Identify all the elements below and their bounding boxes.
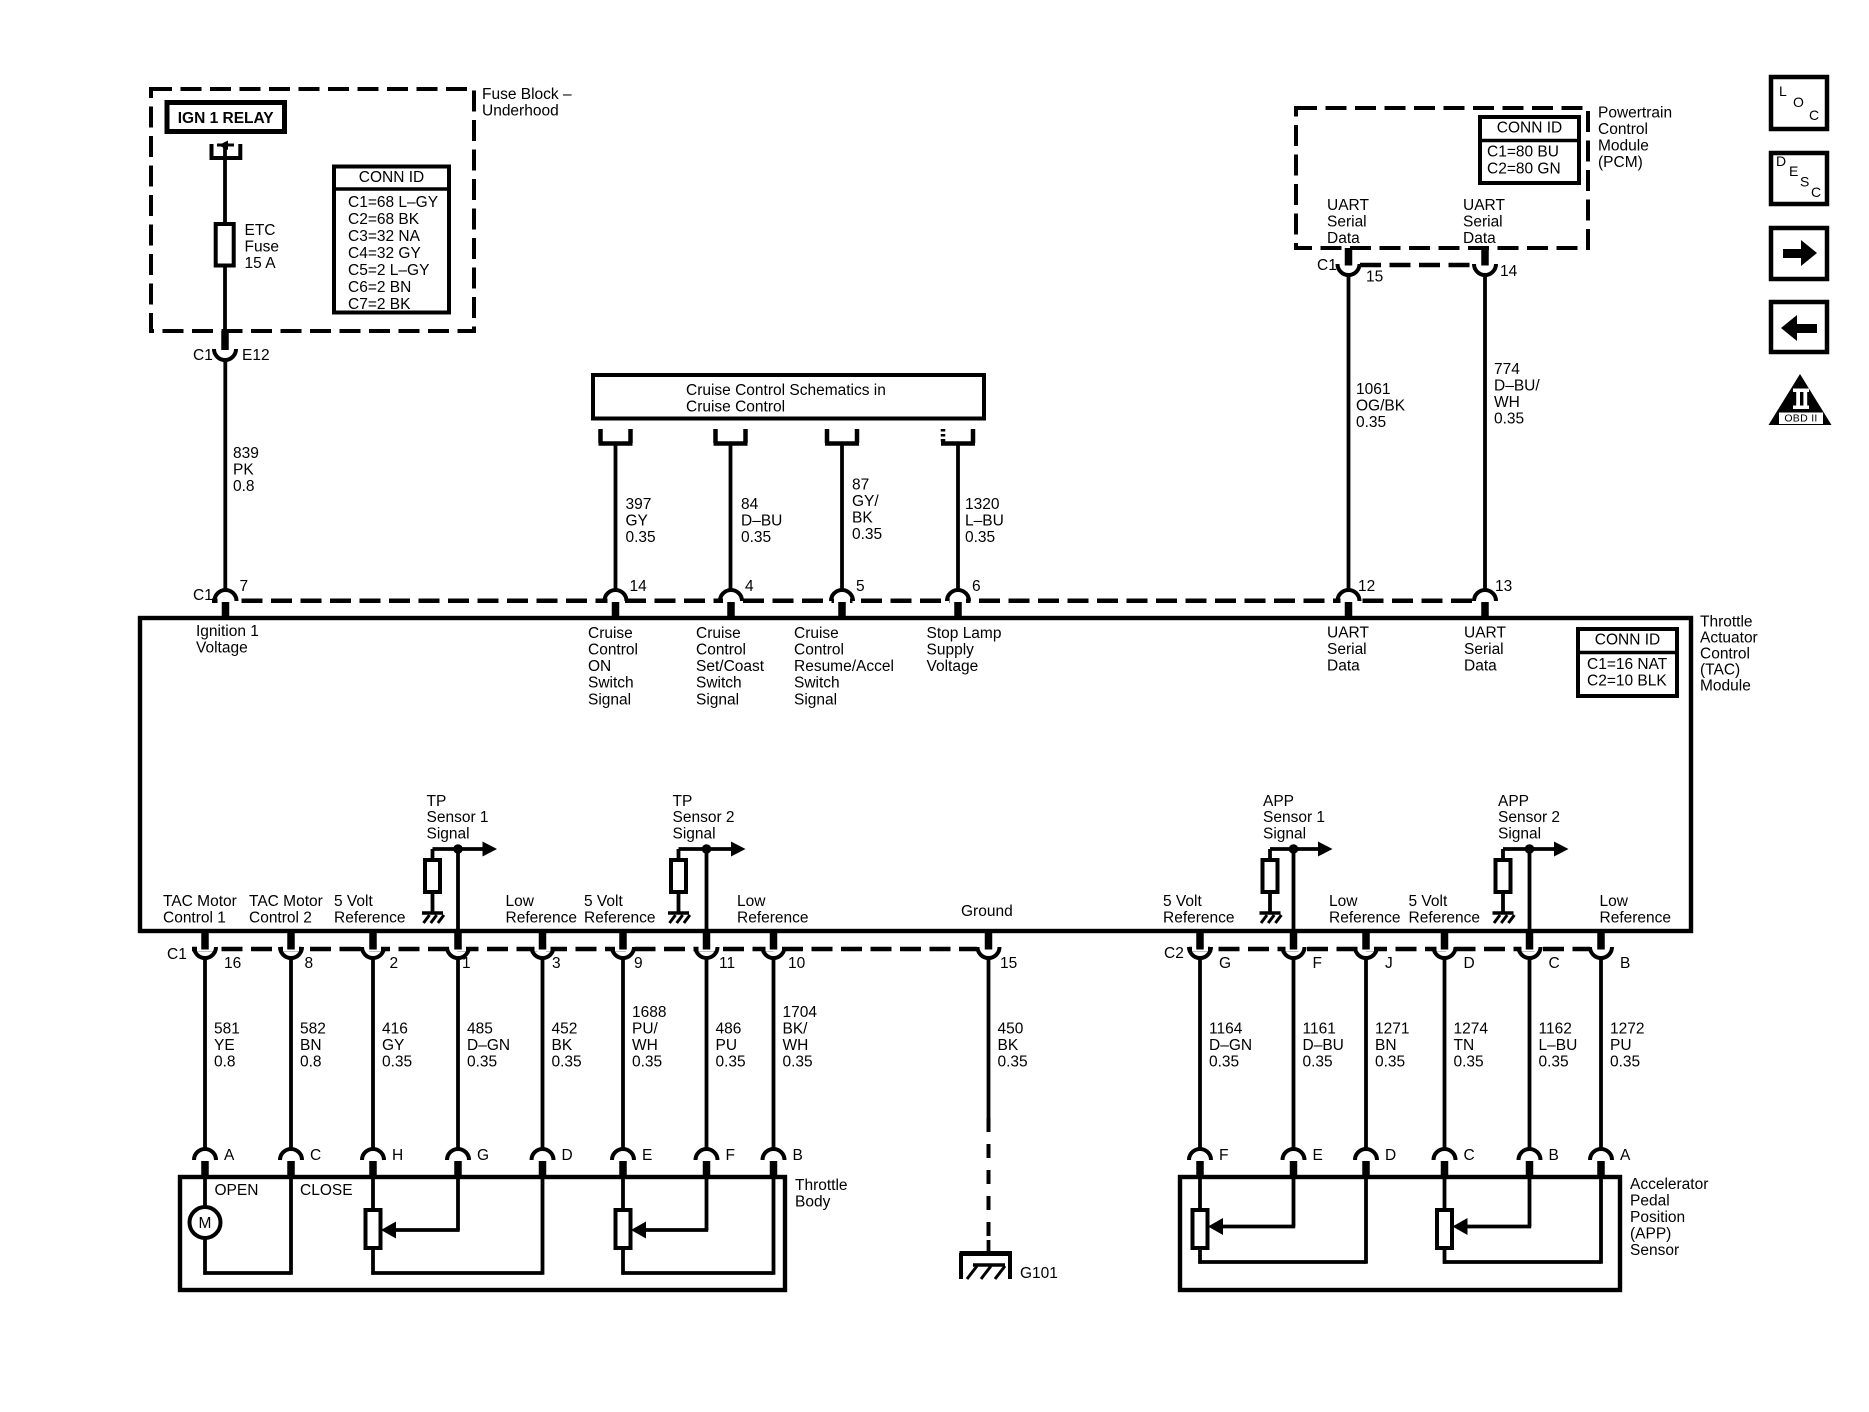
svg-text:TAC Motor: TAC Motor	[163, 893, 237, 910]
svg-text:OG/BK: OG/BK	[1356, 397, 1406, 414]
svg-text:1162: 1162	[1539, 1020, 1572, 1037]
svg-text:G: G	[1219, 955, 1231, 972]
icon back arrow box	[1771, 302, 1827, 352]
connector throttle body pin F	[696, 1149, 718, 1160]
svg-text:84: 84	[741, 496, 759, 513]
svg-text:TP: TP	[427, 793, 447, 810]
connector TAC C1 pin 2 (bottom row)	[365, 945, 381, 951]
svg-text:PK: PK	[233, 461, 254, 478]
svg-text:Cruise Control Schematics in: Cruise Control Schematics in	[686, 382, 886, 399]
svg-text:Resume/Accel: Resume/Accel	[794, 658, 894, 675]
PCM C1 connector dashed line	[1360, 263, 1474, 268]
svg-text:BK: BK	[998, 1037, 1019, 1054]
svg-text:16: 16	[224, 955, 241, 972]
svg-text:YE: YE	[214, 1037, 235, 1054]
svg-text:4: 4	[745, 578, 754, 595]
svg-text:Pedal: Pedal	[1630, 1192, 1670, 1209]
svg-text:D: D	[562, 1147, 573, 1164]
svg-text:416: 416	[382, 1020, 408, 1037]
svg-text:15: 15	[1366, 268, 1383, 285]
wire 582 (BN)	[289, 958, 293, 1150]
svg-text:GY: GY	[626, 512, 648, 529]
svg-text:J: J	[1385, 955, 1393, 972]
svg-text:Reference: Reference	[334, 910, 406, 927]
svg-text:C1=80 BU: C1=80 BU	[1487, 143, 1559, 160]
wire 452 (BK)	[541, 958, 545, 1150]
TP sensor 1 signal network (resistor + internal ground + arrow)	[433, 847, 485, 851]
svg-text:0.35: 0.35	[852, 526, 882, 543]
connector throttle body pin H	[362, 1149, 384, 1160]
wire 485 (D–GN)	[456, 958, 460, 1150]
svg-text:Sensor 2: Sensor 2	[1498, 809, 1560, 826]
connector TAC C1 pin 10 (bottom row)	[766, 945, 782, 951]
svg-text:0.35: 0.35	[1494, 410, 1524, 427]
svg-text:L–BU: L–BU	[1539, 1037, 1578, 1054]
svg-text:D–BU: D–BU	[1303, 1037, 1344, 1054]
svg-text:450: 450	[998, 1020, 1024, 1037]
svg-text:Serial: Serial	[1464, 641, 1504, 658]
svg-text:C6=2 BN: C6=2 BN	[348, 279, 411, 296]
svg-text:9: 9	[634, 955, 643, 972]
svg-text:BK/: BK/	[783, 1020, 809, 1037]
APP pot 1 (pins F/E/D)	[1198, 1179, 1202, 1210]
svg-text:0.35: 0.35	[1303, 1053, 1333, 1070]
fuse ETC 15 A	[216, 224, 234, 266]
connector throttle body pin E	[612, 1149, 634, 1160]
svg-text:0.35: 0.35	[382, 1053, 412, 1070]
svg-text:B: B	[793, 1147, 803, 1164]
connector PCM pin 15	[1345, 248, 1353, 266]
svg-text:Powertrain: Powertrain	[1598, 104, 1672, 121]
svg-text:Cruise: Cruise	[696, 625, 741, 642]
wire 450 BK 0.35 (TAC pin 15 to G101)	[987, 958, 991, 1118]
throttle position pot 2 (pins E/F/B)	[621, 1179, 625, 1210]
svg-text:CONN ID: CONN ID	[1595, 631, 1660, 648]
svg-text:5 Volt: 5 Volt	[334, 893, 373, 910]
svg-text:IGN 1 RELAY: IGN 1 RELAY	[178, 110, 275, 127]
svg-text:0.35: 0.35	[965, 529, 995, 546]
svg-text:C1: C1	[167, 946, 187, 963]
svg-text:E12: E12	[242, 347, 270, 364]
TAC C2 connector dashed line (bottom row)	[1189, 947, 1590, 952]
connector APP sensor pin F	[1189, 1149, 1211, 1160]
svg-text:Signal: Signal	[673, 826, 716, 843]
powertrain control module (PCM) dashed box	[1296, 108, 1588, 248]
svg-text:Switch: Switch	[696, 675, 742, 692]
wire 1272 (PU)	[1599, 958, 1603, 1150]
svg-text:Body: Body	[795, 1193, 831, 1210]
connector TAC C1 pin 3 (bottom row)	[535, 945, 551, 951]
svg-text:Control: Control	[588, 642, 638, 659]
svg-text:H: H	[392, 1147, 403, 1164]
svg-text:0.8: 0.8	[214, 1053, 236, 1070]
svg-text:F: F	[1313, 955, 1322, 972]
svg-text:1271: 1271	[1375, 1020, 1409, 1037]
svg-text:GY/: GY/	[852, 493, 879, 510]
svg-text:UART: UART	[1464, 624, 1506, 641]
svg-text:Reference: Reference	[506, 910, 578, 927]
svg-text:(TAC): (TAC)	[1700, 661, 1740, 678]
svg-text:UART: UART	[1463, 197, 1505, 214]
svg-text:Data: Data	[1463, 230, 1496, 247]
svg-text:0.35: 0.35	[626, 529, 656, 546]
svg-text:Reference: Reference	[584, 910, 656, 927]
connector TAC C1 pin 1 (bottom row)	[450, 945, 466, 951]
svg-text:8: 8	[305, 955, 314, 972]
svg-text:C1: C1	[193, 347, 213, 364]
svg-text:C1: C1	[1317, 257, 1337, 274]
connector APP sensor pin A	[1590, 1149, 1612, 1160]
ground G101	[960, 1251, 1013, 1256]
connector throttle body pin G	[447, 1149, 469, 1160]
connector APP sensor pin E	[1283, 1149, 1305, 1160]
svg-text:0.35: 0.35	[741, 529, 771, 546]
accelerator pedal position (APP) sensor box	[1180, 1177, 1620, 1290]
svg-text:15 A: 15 A	[245, 255, 277, 272]
svg-text:581: 581	[214, 1020, 240, 1037]
svg-text:ON: ON	[588, 658, 611, 675]
svg-text:5: 5	[856, 578, 865, 595]
svg-text:Accelerator: Accelerator	[1630, 1176, 1708, 1193]
svg-text:Sensor 2: Sensor 2	[673, 809, 735, 826]
svg-text:0.35: 0.35	[1375, 1053, 1405, 1070]
svg-text:C5=2 L–GY: C5=2 L–GY	[348, 262, 429, 279]
wire 839 PK 0.8 (E12 to TAC pin 7)	[223, 360, 227, 590]
wire 1704 (BK//WH)	[772, 958, 776, 1150]
fuse block - underhood dashed box	[151, 89, 474, 331]
connector PCM pin 14	[1481, 248, 1489, 266]
svg-text:Throttle: Throttle	[795, 1177, 848, 1194]
icon forward arrow box	[1771, 228, 1827, 279]
connector TAC C2 pin J (bottom row)	[1358, 945, 1374, 951]
svg-text:11: 11	[719, 955, 735, 972]
svg-text:E: E	[1789, 163, 1798, 179]
svg-text:0.8: 0.8	[300, 1053, 322, 1070]
svg-text:10: 10	[788, 955, 806, 972]
svg-text:0.35: 0.35	[632, 1053, 662, 1070]
connector TAC C1 pin 9 (bottom row)	[615, 945, 631, 951]
svg-text:87: 87	[852, 476, 869, 493]
wire 1161 (D–BU)	[1292, 958, 1296, 1150]
svg-text:D–GN: D–GN	[467, 1037, 510, 1054]
svg-text:839: 839	[233, 445, 259, 462]
wire 486 (PU)	[705, 958, 709, 1150]
svg-text:7: 7	[240, 578, 249, 595]
throttle body box	[180, 1177, 785, 1290]
svg-text:C2: C2	[1164, 945, 1184, 962]
connector TAC C2 pin G (bottom row)	[1192, 945, 1208, 951]
svg-text:Control: Control	[696, 642, 746, 659]
svg-text:Cruise: Cruise	[588, 625, 633, 642]
svg-text:Serial: Serial	[1463, 213, 1503, 230]
svg-text:Cruise: Cruise	[794, 625, 839, 642]
TAC C1 connector dashed line (top row)	[212, 599, 1478, 604]
wire 84 (cruise box to TAC pin)	[729, 446, 733, 591]
connector APP sensor pin B	[1519, 1149, 1541, 1160]
connector throttle body pin A	[194, 1149, 216, 1160]
svg-text:Signal: Signal	[588, 691, 631, 708]
wire 397 (cruise box to TAC pin)	[614, 446, 618, 591]
svg-text:0.35: 0.35	[998, 1053, 1028, 1070]
svg-text:1320: 1320	[965, 496, 1000, 513]
wire motor loop (pin A to pin C)	[203, 1238, 207, 1275]
svg-text:C: C	[1811, 184, 1821, 200]
svg-text:D–BU/: D–BU/	[1494, 377, 1540, 394]
svg-text:D–GN: D–GN	[1209, 1037, 1252, 1054]
svg-text:OBD II: OBD II	[1784, 413, 1817, 425]
svg-text:Signal: Signal	[696, 691, 739, 708]
connector throttle body pin C	[280, 1149, 302, 1160]
connector TAC C1 pin 12 (top row)	[1341, 597, 1357, 605]
svg-text:C1=68 L–GY: C1=68 L–GY	[348, 194, 438, 211]
wire 774 D-BU/WH 0.35 (PCM 14 to TAC 13)	[1483, 275, 1487, 590]
svg-text:0.35: 0.35	[716, 1053, 746, 1070]
svg-text:Switch: Switch	[588, 675, 634, 692]
svg-text:5 Volt: 5 Volt	[1409, 893, 1448, 910]
svg-text:1688: 1688	[632, 1004, 666, 1021]
svg-text:B: B	[1620, 955, 1630, 972]
svg-text:Data: Data	[1464, 658, 1497, 675]
svg-text:Reference: Reference	[737, 910, 809, 927]
svg-text:L: L	[1779, 83, 1787, 99]
svg-text:1272: 1272	[1610, 1020, 1644, 1037]
svg-text:3: 3	[552, 955, 561, 972]
svg-text:C: C	[1809, 107, 1819, 123]
svg-text:B: B	[1549, 1147, 1559, 1164]
svg-text:Signal: Signal	[427, 826, 470, 843]
connector TAC C2 pin B (bottom row)	[1593, 945, 1609, 951]
svg-text:Signal: Signal	[794, 691, 837, 708]
svg-text:Module: Module	[1598, 137, 1649, 154]
svg-text:5 Volt: 5 Volt	[584, 893, 623, 910]
cruise connector bracket 1	[598, 429, 603, 443]
svg-text:Low: Low	[506, 893, 535, 910]
svg-text:397: 397	[626, 496, 652, 513]
svg-text:ETC: ETC	[245, 222, 276, 239]
svg-text:WH: WH	[632, 1037, 658, 1054]
svg-text:M: M	[199, 1215, 212, 1232]
wire 581 (YE)	[203, 958, 207, 1150]
throttle position pot 1 (pins H/G/D)	[371, 1179, 375, 1210]
svg-text:D: D	[1776, 153, 1786, 169]
svg-text:13: 13	[1495, 578, 1512, 595]
svg-text:1164: 1164	[1209, 1020, 1243, 1037]
icon OBD II triangle	[1769, 374, 1832, 425]
svg-text:C2=10 BLK: C2=10 BLK	[1587, 673, 1667, 690]
svg-text:C2=68 BK: C2=68 BK	[348, 211, 420, 228]
svg-text:C: C	[1549, 955, 1560, 972]
svg-text:486: 486	[716, 1020, 742, 1037]
svg-text:D–BU: D–BU	[741, 512, 782, 529]
svg-text:Reference: Reference	[1163, 910, 1235, 927]
connector TAC C2 pin C (bottom row)	[1522, 945, 1538, 951]
svg-text:0.35: 0.35	[467, 1053, 497, 1070]
APP sensor 2 signal network (resistor + internal ground + arrow)	[1503, 847, 1556, 851]
svg-text:G: G	[477, 1147, 489, 1164]
wire 1688 (PU//WH)	[621, 958, 625, 1150]
svg-text:APP: APP	[1498, 793, 1529, 810]
svg-text:Fuse: Fuse	[245, 238, 279, 255]
cruise connector bracket 3	[825, 429, 830, 443]
svg-text:0.35: 0.35	[1356, 414, 1386, 431]
svg-text:2: 2	[390, 955, 399, 972]
svg-text:D: D	[1385, 1147, 1396, 1164]
svg-text:Cruise Control: Cruise Control	[686, 398, 785, 415]
svg-text:BK: BK	[852, 509, 873, 526]
connector throttle body pin D	[532, 1149, 554, 1160]
svg-text:(APP): (APP)	[1630, 1225, 1671, 1242]
svg-text:BN: BN	[300, 1037, 322, 1054]
svg-text:Stop Lamp: Stop Lamp	[927, 625, 1002, 642]
svg-text:6: 6	[972, 578, 981, 595]
svg-text:Control 1: Control 1	[163, 910, 226, 927]
svg-text:Sensor: Sensor	[1630, 1242, 1679, 1259]
TP sensor 2 signal network (resistor + internal ground + arrow)	[679, 847, 733, 851]
svg-text:Fuse Block –: Fuse Block –	[482, 86, 572, 103]
svg-text:E: E	[642, 1147, 652, 1164]
svg-text:WH: WH	[783, 1037, 809, 1054]
connector TAC C1 pin 13 (top row)	[1477, 597, 1493, 605]
svg-text:O: O	[1793, 94, 1804, 110]
conn id table (fuse block)	[334, 167, 449, 313]
connector TAC C1 pin 5 (top row)	[834, 597, 850, 605]
conn id table (PCM)	[1480, 117, 1579, 183]
svg-text:TAC Motor: TAC Motor	[249, 893, 323, 910]
svg-text:Reference: Reference	[1600, 910, 1672, 927]
motor M (throttle motor)	[203, 1179, 207, 1207]
connector TAC C1 pin 8 (bottom row)	[283, 945, 299, 951]
svg-text:Data: Data	[1327, 230, 1360, 247]
svg-text:GY: GY	[382, 1037, 404, 1054]
svg-text:Control 2: Control 2	[249, 910, 312, 927]
svg-text:Low: Low	[737, 893, 766, 910]
wire 1162 (L–BU)	[1528, 958, 1532, 1150]
cruise control schematics box	[593, 375, 984, 419]
svg-text:Sensor 1: Sensor 1	[1263, 809, 1325, 826]
svg-text:F: F	[1219, 1147, 1228, 1164]
connector C1 E12 (fuse block output)	[221, 331, 229, 350]
svg-text:Set/Coast: Set/Coast	[696, 658, 765, 675]
svg-text:452: 452	[552, 1020, 578, 1037]
wire 1061 OG/BK 0.35 (PCM 15 to TAC 12)	[1347, 275, 1351, 590]
svg-text:15: 15	[1000, 955, 1017, 972]
svg-text:TP: TP	[673, 793, 693, 810]
svg-text:Data: Data	[1327, 658, 1360, 675]
svg-text:14: 14	[630, 578, 648, 595]
svg-text:BK: BK	[552, 1037, 573, 1054]
wire relay to fuse	[223, 147, 227, 224]
svg-text:TN: TN	[1454, 1037, 1475, 1054]
svg-text:WH: WH	[1494, 394, 1520, 411]
svg-text:C2=80 GN: C2=80 GN	[1487, 160, 1561, 177]
connector TAC C2 pin F (bottom row)	[1286, 945, 1302, 951]
connector TAC C2 pin D (bottom row)	[1437, 945, 1453, 951]
connector throttle body pin B	[763, 1149, 785, 1160]
cruise connector bracket 4	[941, 429, 946, 443]
svg-text:(PCM): (PCM)	[1598, 154, 1643, 171]
svg-text:1: 1	[462, 955, 471, 972]
connector TAC C1 pin 15 (bottom row)	[981, 945, 997, 951]
svg-text:CONN ID: CONN ID	[1497, 119, 1562, 136]
connector TAC C1 pin 14 (top row)	[608, 597, 624, 605]
connector TAC C1 pin 11 (bottom row)	[699, 945, 715, 951]
relay contact symbol (IGN 1 relay output)	[217, 144, 234, 147]
svg-text:Actuator: Actuator	[1700, 629, 1758, 646]
svg-text:582: 582	[300, 1020, 326, 1037]
svg-text:CONN ID: CONN ID	[359, 169, 424, 186]
svg-text:0.35: 0.35	[1209, 1053, 1239, 1070]
conn id table (TAC)	[1578, 629, 1677, 696]
svg-text:Reference: Reference	[1329, 910, 1401, 927]
svg-text:5 Volt: 5 Volt	[1163, 893, 1202, 910]
svg-text:C1: C1	[193, 587, 213, 604]
svg-text:Underhood: Underhood	[482, 102, 559, 119]
svg-text:APP: APP	[1263, 793, 1294, 810]
svg-text:Control: Control	[1700, 645, 1750, 662]
svg-text:Low: Low	[1329, 893, 1358, 910]
svg-text:C1=16 NAT: C1=16 NAT	[1587, 656, 1668, 673]
APP pot 2 (pins C/B/A)	[1443, 1179, 1447, 1210]
wire 1274 (TN)	[1443, 958, 1447, 1150]
svg-text:0.35: 0.35	[1454, 1053, 1484, 1070]
TAC C1 connector dashed line (bottom row)	[192, 947, 977, 952]
svg-text:C: C	[1464, 1147, 1475, 1164]
connector TAC C1 pin 7 (top row)	[218, 597, 234, 605]
svg-text:PU/: PU/	[632, 1020, 659, 1037]
wire 1320 (cruise box to TAC pin)	[956, 446, 960, 591]
svg-text:485: 485	[467, 1020, 493, 1037]
svg-text:Ground: Ground	[961, 903, 1013, 920]
svg-text:PU: PU	[716, 1037, 738, 1054]
svg-text:Control: Control	[794, 642, 844, 659]
throttle actuator control (TAC) module box	[140, 618, 1691, 931]
connector TAC C1 pin 16 (bottom row)	[197, 945, 213, 951]
svg-text:UART: UART	[1327, 197, 1369, 214]
wire 1271 (BN)	[1364, 958, 1368, 1150]
svg-text:Supply: Supply	[927, 642, 975, 659]
svg-text:C4=32 GY: C4=32 GY	[348, 245, 421, 262]
svg-text:0.35: 0.35	[783, 1053, 813, 1070]
icon DESC box	[1771, 153, 1827, 204]
wire 87 (cruise box to TAC pin)	[840, 446, 844, 591]
icon LOC box	[1771, 77, 1827, 129]
svg-text:14: 14	[1500, 263, 1518, 280]
svg-text:L–BU: L–BU	[965, 512, 1004, 529]
svg-text:774: 774	[1494, 361, 1520, 378]
svg-text:Control: Control	[1598, 121, 1648, 138]
svg-text:Low: Low	[1600, 893, 1629, 910]
wire fuse to fuse block edge	[223, 266, 227, 332]
connector TAC C1 pin 6 (top row)	[950, 597, 966, 605]
svg-text:Serial: Serial	[1327, 213, 1367, 230]
svg-text:OPEN: OPEN	[215, 1182, 259, 1199]
svg-text:1704: 1704	[783, 1004, 818, 1021]
svg-text:Signal: Signal	[1498, 826, 1541, 843]
svg-text:C3=32 NA: C3=32 NA	[348, 228, 421, 245]
svg-text:1274: 1274	[1454, 1020, 1489, 1037]
svg-text:BN: BN	[1375, 1037, 1397, 1054]
svg-text:0.35: 0.35	[1610, 1053, 1640, 1070]
svg-text:E: E	[1313, 1147, 1323, 1164]
svg-text:Signal: Signal	[1263, 826, 1306, 843]
svg-text:C: C	[310, 1147, 321, 1164]
connector TAC C1 pin 4 (top row)	[723, 597, 739, 605]
svg-text:F: F	[726, 1147, 735, 1164]
svg-text:D: D	[1464, 955, 1475, 972]
svg-text:Reference: Reference	[1409, 910, 1481, 927]
svg-text:S: S	[1800, 173, 1809, 189]
svg-text:0.35: 0.35	[1539, 1053, 1569, 1070]
